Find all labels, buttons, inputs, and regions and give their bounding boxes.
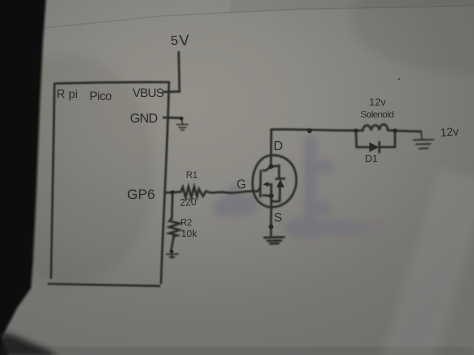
flyback branch right <box>379 131 395 148</box>
wire GP6 stub <box>166 191 173 193</box>
diode D1 cathode bar <box>378 142 380 152</box>
bottom vignette <box>0 349 474 355</box>
faint light diagonal band bottom right <box>373 167 474 355</box>
svg-text:G: G <box>237 178 247 192</box>
ground below R2 <box>167 254 179 258</box>
wire R2 to ground <box>171 236 173 250</box>
svg-text:10k: 10k <box>181 229 198 240</box>
mosfet body line arrow to source <box>268 184 272 195</box>
wire R1 to gate <box>201 189 260 197</box>
junction dot drain inside <box>269 164 274 169</box>
filled ink shapes <box>170 78 400 254</box>
body diode triangle <box>276 179 284 187</box>
mosfet source plate <box>263 194 271 197</box>
black left wedge <box>0 0 46 355</box>
svg-text:V: V <box>179 32 190 50</box>
stray pen dot <box>398 78 400 80</box>
svg-text:12v: 12v <box>440 126 460 139</box>
wire source down <box>270 196 272 235</box>
ink drawing <box>49 52 434 286</box>
wire solenoid to right <box>395 130 421 133</box>
junction dot GP6 <box>170 190 174 194</box>
body diode bottom link <box>271 187 280 201</box>
paper top edge shade line <box>44 6 474 28</box>
resistor R2 branch wire <box>171 192 174 218</box>
ground below mosfet <box>264 236 284 239</box>
wire GND stub <box>164 116 182 119</box>
junction dot GND pin <box>180 117 184 121</box>
mosfet gate arrow <box>263 182 268 187</box>
svg-text:R2: R2 <box>181 218 193 228</box>
dot R2 ground <box>170 250 174 254</box>
solenoid L1 coil <box>356 124 395 130</box>
svg-text:12v: 12v <box>369 97 387 109</box>
wire 5V to VBUS pin <box>163 52 180 92</box>
svg-text:5: 5 <box>170 33 178 48</box>
svg-text:R1: R1 <box>186 170 198 180</box>
hand shadow blobs <box>213 136 384 239</box>
pico box bottom edge <box>49 284 160 286</box>
shadow finger streak <box>304 136 317 222</box>
ground at GND pin <box>177 119 189 131</box>
svg-text:VBUS: VBUS <box>133 86 164 100</box>
mosfet gate bar <box>259 171 262 197</box>
pico box right edge <box>161 82 169 283</box>
dark bottom-left corner extension <box>0 332 58 355</box>
svg-text:Solenoid: Solenoid <box>361 110 394 121</box>
wire drain vertical <box>270 130 273 167</box>
shadow lower blob <box>284 217 328 239</box>
resistor R1 <box>172 187 201 198</box>
slight darkening above top edge right half <box>230 0 474 12</box>
junction dot source outside <box>269 224 274 229</box>
wire drain to solenoid <box>271 129 356 130</box>
svg-text:Pico: Pico <box>90 89 113 103</box>
junction dot solenoid left <box>354 129 358 133</box>
svg-text:S: S <box>274 211 282 225</box>
shadow left blob <box>217 193 259 217</box>
svg-text:GP6: GP6 <box>127 186 155 202</box>
junction dot source inside <box>269 193 274 198</box>
svg-text:GND: GND <box>130 111 158 126</box>
diode D1 triangle <box>369 142 379 152</box>
pico box top edge <box>55 82 169 83</box>
svg-text:D: D <box>274 138 283 153</box>
svg-text:R pi: R pi <box>57 87 78 101</box>
body diode cathode bar <box>276 178 284 180</box>
ground 12V rail <box>414 132 434 149</box>
junction dot solenoid right <box>393 129 397 133</box>
svg-text:220: 220 <box>179 197 197 209</box>
mosfet drain plate <box>263 167 271 171</box>
junction dot top wire <box>307 128 312 133</box>
flyback branch left <box>356 131 369 148</box>
pico box left edge <box>51 84 55 278</box>
svg-text:D1: D1 <box>365 154 378 165</box>
mosfet Q1 body circle <box>253 155 297 207</box>
body diode top link <box>271 166 279 179</box>
resistor R2 <box>169 219 179 237</box>
